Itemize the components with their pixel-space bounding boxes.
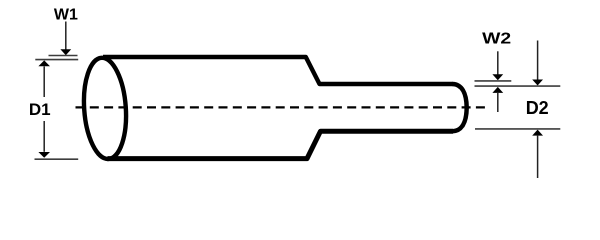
- W2 arrow (down): [497, 51, 499, 74]
- svg-text:D2: D2: [526, 98, 549, 118]
- centerline (dashed axis): [76, 106, 487, 108]
- D2 arrow (down): [537, 41, 539, 80]
- svg-text:D1: D1: [29, 100, 51, 119]
- left end ellipse (open end of large tube): [81, 56, 130, 160]
- W1 arrow (down): [65, 22, 67, 51]
- tube bottom outline (large tube bottom, step, small tube bottom): [108, 131, 454, 158]
- top extension line: [35, 59, 78, 61]
- W2 tick line: [475, 80, 512, 82]
- tube top outline (large tube top, step, small tube top): [103, 57, 453, 84]
- W2 arrow (up): [492, 87, 503, 93]
- right bottom extension line: [475, 128, 560, 130]
- D1 top arrow (up): [38, 60, 50, 66]
- right top extension line: [475, 85, 561, 87]
- svg-text:W1: W1: [54, 7, 78, 24]
- right end cap (rounded closed end of small tube): [453, 84, 467, 131]
- W1 tick line: [49, 55, 78, 57]
- D2 arrow (up): [532, 130, 543, 136]
- svg-text:W2: W2: [482, 31, 511, 48]
- bottom extension line: [35, 158, 79, 160]
- D1 bottom arrow (down): [43, 121, 45, 152]
